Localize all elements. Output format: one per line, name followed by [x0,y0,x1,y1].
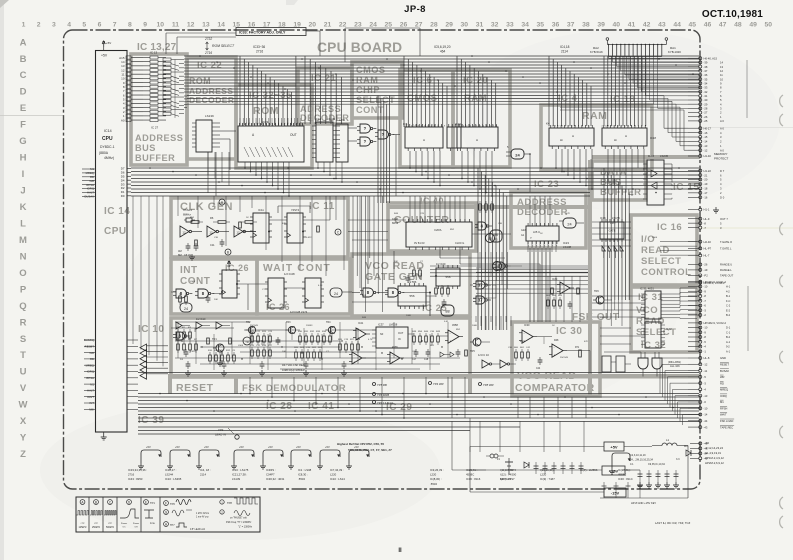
svg-text:4: 4 [575,126,576,128]
svg-text:DATA: DATA [434,228,441,232]
svg-text:2716: 2716 [204,51,212,55]
svg-text:IC18: IC18 [650,136,656,140]
svg-text:24: 24 [515,153,520,158]
svg-text:CPU BOARD: CPU BOARD [317,40,402,55]
gate gen extra parts [352,285,449,316]
wires decoder to ROM [208,131,236,196]
secondary bus lines below address bus [187,96,560,105]
clock divider flip-flop IC11a [250,208,272,243]
svg-text:0.5" LEAD volt: 0.5" LEAD volt [190,528,205,531]
test point TP5 [373,383,387,388]
IC31 4051 body [640,287,665,320]
svg-text:G2A: G2A [521,229,526,232]
svg-text:H: H [20,153,27,164]
svg-text:D0: D0 [121,194,125,198]
svg-text:7: 7 [493,126,494,128]
RAM IC6 body [447,124,461,151]
vertical wires clk gen feeds [378,96,390,204]
svg-text:IC30,32 : 4031: IC30,32 : 4031 [266,477,285,481]
vco read gate gen AND gates [352,268,430,316]
comparator opamp IC8a [519,323,537,344]
svg-text:1S953: 1S953 [600,317,607,319]
svg-text:IC(8,30) :: IC(8,30) : [430,477,442,481]
junction dots on buses [149,55,694,415]
interrupt control block [171,259,257,314]
svg-text:37: 37 [567,22,575,29]
reset RC parts [176,327,251,361]
svg-text:6: 6 [480,126,481,128]
wire +5V rail top left [103,47,105,51]
svg-text:T.GATE.L: T.GATE.L [720,247,732,251]
svg-text:WR: WR [720,375,725,379]
power group stubs [690,442,708,461]
RAM block IC4/IC18 [541,93,652,170]
svg-text:47: 47 [719,22,727,29]
svg-text:DECODER: DECODER [189,95,234,105]
svg-text:48: 48 [734,22,742,29]
FSK demod vertical hookup wires [178,322,448,370]
svg-text:12: 12 [720,69,723,73]
vertical wires counter to comparator [530,248,550,322]
address bus horizontal lines top [187,56,699,92]
svg-text:IC32: IC32 [666,327,672,331]
svg-text:HL-8: HL-8 [704,356,710,360]
svg-text:1/2 IC10: 1/2 IC10 [196,318,206,321]
svg-text:1ms.: 1ms. [150,522,156,525]
circled test letter A [219,199,225,205]
wait control block IC26 [257,259,350,314]
CPU IC14 box [96,51,128,433]
svg-text:M: M [19,235,27,246]
svg-text:?: ? [364,126,367,131]
address decoder block IC21 [298,68,352,124]
svg-text:B-1: B-1 [726,294,731,298]
latch IC12 L374 [336,118,348,162]
svg-text:L220: L220 [430,473,437,477]
int cont extra parts [171,283,238,305]
svg-text:LS244: LS244 [165,473,174,477]
middle vertical drops to comparator [476,276,580,330]
svg-text:74S74: 74S74 [291,208,300,212]
svg-text:0.022: 0.022 [306,237,312,239]
svg-text:250kHz: 250kHz [92,526,101,529]
svg-text:TR6: TR6 [594,290,599,293]
svg-text:5: 5 [476,126,477,128]
svg-text:-11: -11 [704,369,708,373]
svg-text:BATTERY: BATTERY [500,478,512,481]
IC16 output inverter triangles [602,246,623,258]
RAM IC4 body [546,122,594,150]
svg-text:21: 21 [324,22,332,29]
svg-text:50: 50 [765,22,773,29]
svg-text:R47 VR1 FSK READ: R47 VR1 FSK READ [282,363,306,367]
svg-text:12: 12 [236,231,240,235]
svg-text:556: 556 [409,294,414,298]
svg-text:3: 3 [635,126,636,128]
svg-text:-46: -46 [704,447,708,451]
aux lower lines [138,427,520,434]
svg-text:A-1: A-1 [726,349,731,353]
comparator RC parts [514,347,581,370]
svg-text:2732: 2732 [204,37,212,41]
svg-text:42: 42 [643,22,651,29]
svg-text:-35: -35 [704,77,708,81]
svg-text:500kHz: 500kHz [106,526,115,529]
svg-text:BUSAK: BUSAK [720,369,729,373]
svg-text:VCO: VCO [636,305,658,316]
svg-text:L220: L220 [330,473,337,477]
svg-text:+5V: +5V [175,445,180,449]
svg-text:RANGE.U: RANGE.U [720,263,732,267]
svg-text:INT: INT [180,265,198,276]
svg-text:IC16 : LS175: IC16 : LS175 [232,468,249,472]
svg-text:3: 3 [463,126,464,128]
svg-text:4: 4 [431,126,432,128]
svg-text:IC(9) : 74#7: IC(9) : 74#7 [540,477,555,481]
vertical wires bus to RAM IC19 IC20 [457,56,496,127]
middle region hookup wires [476,252,588,293]
IC31/32 wires to edge [665,288,697,318]
svg-text:LS138: LS138 [563,245,572,249]
svg-text:-43: -43 [704,425,708,429]
svg-text:3: 3 [608,126,609,128]
ram pin tick rows [405,126,643,128]
svg-text:+5V: +5V [106,41,111,45]
svg-text:LS139: LS139 [327,117,336,121]
svg-text:88: 88 [445,310,449,314]
svg-text:-33: -33 [704,86,708,90]
svg-text:-13: -13 [704,394,708,398]
svg-text:1 kHz 1V/cm: 1 kHz 1V/cm [196,513,209,515]
svg-text:+15V: +15V [609,469,619,474]
FSK demod transistor TR5 [470,338,490,353]
svg-text:HP-8 GND +15V KEY: HP-8 GND +15V KEY [631,501,656,505]
svg-text:KYB-511K: KYB-511K [590,50,603,54]
svg-text:T: T [20,350,26,361]
svg-text:IC 10: IC 10 [138,324,164,335]
svg-text:+5V: +5V [101,54,108,58]
svg-text:Highest Ref Det #P# R52, C50,: Highest Ref Det #P# R52, C50, 55 [337,442,384,446]
assorted tiny reference labels [190,213,658,359]
scan tone blobs [40,400,440,540]
svg-text:-10: -10 [704,285,708,289]
svg-text:HP1M4-9, VCO1-2: HP1M4-9, VCO1-2 [704,280,727,284]
gate gen vertical feed wires [368,196,394,272]
FSK demod resistor ladder [298,331,333,345]
svg-text:4558: 4558 [392,346,398,349]
VCO read comparator block [512,322,600,396]
svg-text:1: 1 [578,126,579,128]
svg-text:1: 1 [486,126,487,128]
+15V power label box [602,466,625,475]
data bus buffer block [592,161,646,200]
svg-text:IC10 : LS365: IC10 : LS365 [165,477,182,481]
RAM IC18 body [602,125,656,149]
factory adjust note box [236,28,306,36]
reset wires [171,328,262,345]
line driver pair right of comparator [602,356,631,372]
svg-text:0.1: 0.1 [630,463,634,466]
svg-text:IC 39: IC 39 [138,415,164,426]
battery B1 [497,458,513,481]
svg-text:2: 2 [421,126,422,128]
svg-text:-14: -14 [704,140,708,144]
IC21 LS139 decoder body [312,117,340,162]
svg-text:B: B [20,54,27,65]
svg-text:8253: 8253 [392,221,399,225]
vertical wires data bus down middle [478,168,507,330]
svg-text:47K: 47K [566,213,570,215]
svg-text:2: 2 [473,126,474,128]
FSK demod RC network row [412,331,441,345]
svg-text:1/4 IC 10: 1/4 IC 10 [478,353,489,357]
svg-text:CONT: CONT [356,105,384,115]
buffer box output wires to bus [184,56,187,92]
svg-text:Q: Q [19,301,26,312]
svg-text:X: X [20,416,27,427]
svg-text:0.022: 0.022 [190,351,196,353]
svg-text:L1: L1 [666,438,670,442]
svg-text:4MHz): 4MHz) [104,156,114,160]
svg-text:H6-40, A15: H6-40, A15 [704,56,718,60]
svg-text:7: 7 [113,22,117,29]
svg-text:IC 16: IC 16 [657,222,682,233]
svg-text:14: 14 [217,22,225,29]
RAM block IC20 [453,70,510,167]
svg-text:47K: 47K [282,223,286,225]
svg-text:H-1: H-1 [726,285,731,289]
test point TP8 right [479,383,494,388]
wires bottom bus to power section [452,418,486,470]
svg-text:46: 46 [704,22,712,29]
power wires bottom right [470,446,688,499]
svg-text:TP9: TP9 [218,428,224,432]
svg-text:5: 5 [621,126,622,128]
svg-text:3: 3 [52,22,56,29]
svg-text:8: 8 [470,126,471,128]
middle separation gray bands [588,160,592,396]
CMOS RAM block IC6 [400,70,453,167]
svg-text:4.7K: 4.7K [368,339,373,341]
svg-text:10kB fc(H)=1850Hz: 10kB fc(H)=1850Hz [282,368,305,372]
svg-text:LAST IH, #IC IC#, YK#, TC#: LAST IH, #IC IC#, YK#, TC# [655,521,691,525]
svg-text:556: 556 [445,275,450,279]
svg-text:FSK.LOAD: FSK.LOAD [720,419,733,423]
svg-text:4: 4 [549,126,550,128]
grid row letters A-Z [19,37,28,460]
svg-text:7: 7 [611,126,612,128]
svg-text:4M: 4M [178,249,182,253]
svg-text:12: 12 [182,231,186,235]
wires from io-select box left [592,222,645,317]
power section feed drops [480,421,584,452]
svg-text:C-1: C-1 [726,330,731,334]
svg-text:-19: -19 [704,268,708,272]
IC38 LS139 decoder [192,114,220,152]
diode D1 [524,462,529,468]
svg-text:RFSH: RFSH [720,406,727,410]
svg-text:-17: -17 [704,191,708,195]
svg-text:8MHz: 8MHz [183,213,191,217]
VCO read gate gen block [352,254,470,316]
counter output wires [440,234,540,322]
chip select OR gates [357,124,394,146]
test point TP4 [429,382,444,387]
vertical wires bus to RAM IC5 IC6 [404,56,447,127]
svg-text:2: 2 [37,22,41,29]
svg-text:14: 14 [720,61,723,65]
svg-text:-31: -31 [704,94,708,98]
svg-text:IC36 : 8116: IC36 : 8116 [466,477,481,481]
svg-text:10K: 10K [394,261,398,263]
svg-text:8: 8 [128,22,132,29]
svg-text:IC37: IC37 [378,323,384,327]
-15V power label box [604,488,626,497]
svg-text:IC1 : LS08: IC1 : LS08 [298,468,312,472]
counter aux gates [475,201,493,230]
svg-text:IC4,18: IC4,18 [560,45,570,49]
svg-text:+: + [450,340,452,344]
svg-text:13: 13 [720,65,723,69]
control bus horizontal lines lower [138,373,699,422]
svg-text:IC 21: IC 21 [311,73,336,84]
svg-text:IC30 : 811C: IC30 : 811C [618,477,633,481]
ground stub H1-1 [688,207,719,213]
svg-text:+5V: +5V [610,445,618,450]
svg-text:LS139: LS139 [232,477,241,481]
svg-text:IC11: IC11 [258,208,264,212]
svg-text:-39: -39 [704,61,708,65]
svg-text:-2,12,14,23,24: -2,12,14,23,24 [705,446,723,450]
svg-text:C11: C11 [210,243,215,247]
svg-text:ICRP1 :: ICRP1 : [266,468,276,472]
clock divider flip-flop IC11b [284,208,306,243]
svg-text:IC43 : 8253: IC43 : 8253 [128,477,143,481]
svg-text:HP1M-2,4,9,12: HP1M-2,4,9,12 [705,456,724,460]
bottom label strip RESET / FSK DEMODULATOR [168,374,700,394]
svg-text:LS04: LS04 [652,237,658,239]
svg-text:C2,3,10,11,19: C2,3,10,11,19 [630,454,646,457]
svg-text:100K: 100K [406,315,412,317]
svg-text:D: D [20,87,27,98]
circled test letter B [225,249,231,255]
CPU left-side control stubs MREQ RD WR [82,167,96,198]
svg-text:1L15: 1L15 [648,154,655,158]
svg-text:2: 2 [565,126,566,128]
svg-text:IC33: FACTORY ADJ. ONLY: IC33: FACTORY ADJ. ONLY [239,31,286,35]
FSK OUT transistor TR6 [593,290,612,304]
svg-text:CLK0 G: CLK0 G [455,241,464,245]
data bus horizontal lines middle [131,168,699,196]
svg-text:IC 31, 4051: IC 31, 4051 [640,287,654,291]
svg-text:47K: 47K [584,341,588,343]
svg-text:G: G [19,136,26,147]
FSK demod opamp 4558 A [445,323,463,344]
svg-text:IC 30: IC 30 [556,326,582,337]
FSK out parts column [546,295,572,309]
buffer IC13 cell column [143,51,166,122]
svg-text:-12: -12 [704,148,708,152]
rom pin numbers row [239,118,301,126]
svg-text:H1-22: H1-22 [704,169,712,173]
svg-text:F: F [20,120,26,131]
svg-text:+: + [392,361,394,365]
svg-text:#TP: #TP [108,523,113,525]
svg-text:-19: -19 [704,182,708,186]
svg-text:-10: -10 [704,406,708,410]
circled test letter C [335,229,341,235]
svg-text:2716: 2716 [128,473,135,477]
highest ref det note [337,442,392,452]
top wires from buffer to ROM select [166,28,420,62]
svg-text:24: 24 [184,307,188,311]
RAM IC5 body [403,122,443,151]
svg-text:WAIT: WAIT [720,413,727,417]
ROM block IC32-35 [236,85,312,168]
svg-text:+5V: +5V [239,445,244,449]
svg-text:4: 4 [483,126,484,128]
svg-text:A: A [476,138,478,142]
svg-text:IN: IN [398,338,401,341]
svg-text:IC9,26,39 :: IC9,26,39 : [430,468,444,472]
counter feed wires from bus [410,196,465,222]
punch hole arcs right margin [780,95,783,107]
svg-text:SELECT: SELECT [641,256,681,267]
svg-text:TR3: TR3 [286,321,291,324]
svg-text:-26: -26 [704,115,708,119]
inductor L1 [652,438,688,446]
svg-text:40: 40 [613,22,621,29]
svg-text:12: 12 [209,231,213,235]
svg-text:33: 33 [506,22,514,29]
bend wires into control stubs [660,358,688,425]
svg-text:-48: -48 [704,442,708,446]
svg-text:A: A [625,134,627,138]
ROM data out wires down [244,162,290,197]
svg-text:TR5: TR5 [470,350,475,353]
svg-text:TR: TR [245,340,249,344]
svg-text:HL-P7: HL-P7 [704,247,712,251]
svg-text:IC7,34,39 :: IC7,34,39 : [330,468,344,472]
svg-text:L: L [20,218,26,229]
svg-text:TP7: TP7 [170,524,175,527]
vertical bundle wait-cont to counter column [353,196,382,312]
svg-text:4-2: 4-2 [726,289,730,293]
data bus vertical extension down to comparator [604,300,622,326]
svg-text:LEAD IN: LEAD IN [215,433,227,437]
svg-text:TP1: TP1 [150,501,155,505]
svg-text:10: 10 [720,77,723,81]
svg-text:+5V: +5V [296,445,301,449]
svg-text:7: 7 [585,126,586,128]
vertical wires bus to RAM IC4 [549,56,591,126]
svg-text:0.022: 0.022 [610,223,616,225]
svg-text:4.7K: 4.7K [318,285,323,287]
svg-text:3: 3 [582,126,583,128]
IC39 bus driver triangles [140,344,168,379]
svg-text:37: 37 [478,298,483,303]
svg-text:4558: 4558 [452,323,458,327]
svg-text:NF: NF [380,333,384,336]
svg-text:-34: -34 [704,81,708,85]
WAIT flip-flops [265,272,324,308]
svg-text:10: 10 [157,22,165,29]
svg-text:+5V: +5V [204,445,209,449]
svg-text:8: 8 [641,126,642,128]
WAIT gate 24 [330,288,352,297]
svg-text:3: 3 [555,126,556,128]
svg-text:45: 45 [689,22,697,29]
